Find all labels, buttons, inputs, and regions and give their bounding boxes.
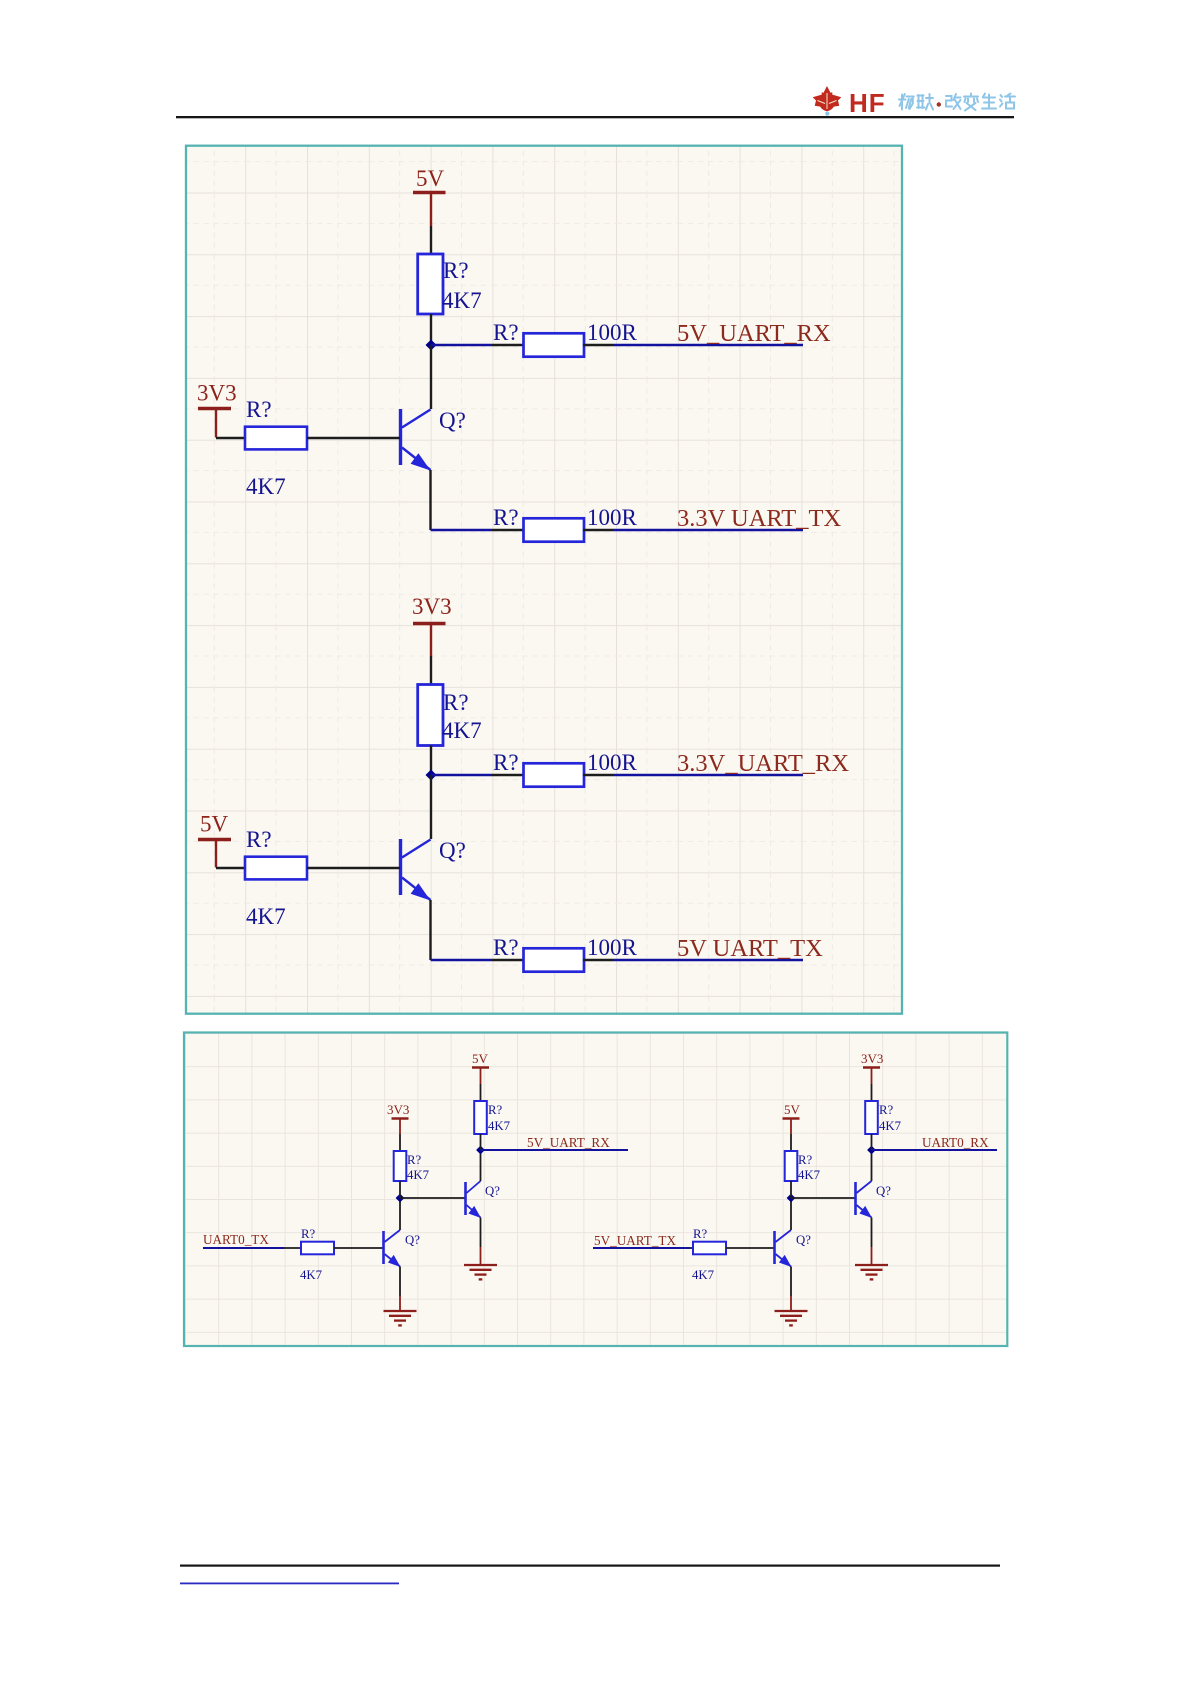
wire R5 to node B [430, 746, 432, 776]
svg-text:UART0_RX: UART0_RX [922, 1135, 989, 1150]
wire node B to R6 [431, 774, 492, 776]
char huo [1000, 94, 1015, 109]
wire 3V3 to R3 [216, 437, 245, 439]
transistor Q6 (NPN) [856, 1181, 873, 1218]
wire Q5 collector to node E [790, 1198, 792, 1230]
transistor Q2 (NPN) [401, 839, 431, 901]
power port 3V3 bar [392, 1119, 409, 1135]
resistor R12 body [693, 1242, 726, 1255]
header rule [176, 116, 1014, 118]
wire 5V to R1 [430, 226, 432, 254]
ground symbol Q4 emitter [464, 1265, 497, 1279]
svg-text:R?: R? [301, 1227, 316, 1241]
svg-text:5V UART_TX: 5V UART_TX [677, 935, 823, 962]
wire node E to Q6 base [791, 1197, 855, 1199]
svg-text:R?: R? [488, 1103, 503, 1117]
wire 3V3 to R5 [430, 656, 432, 685]
svg-text:R?: R? [246, 827, 272, 852]
svg-text:3V3: 3V3 [861, 1051, 883, 1066]
wire emitter to R4 [431, 529, 493, 531]
resistor R2 body [524, 333, 585, 356]
logo leaf [813, 86, 842, 116]
svg-text:Q?: Q? [485, 1184, 500, 1198]
wire R11 to node D [480, 1134, 482, 1150]
wire Q2 emitter down [429, 900, 431, 960]
ground symbol Q3 emitter [384, 1311, 417, 1325]
svg-text:100R: 100R [587, 505, 638, 530]
svg-text:4K7: 4K7 [246, 904, 286, 929]
ground symbol Q6 emitter [855, 1265, 888, 1279]
wire R1 to node A [430, 314, 432, 345]
node B junction dot [426, 770, 437, 781]
wire 5V to R11 [480, 1084, 482, 1101]
char gai [946, 94, 961, 109]
power port 3V3 bar [863, 1068, 880, 1085]
svg-text:R?: R? [493, 935, 519, 960]
wire to R9 [284, 1247, 301, 1249]
char bian [964, 94, 978, 111]
resistor R13 body [785, 1151, 798, 1181]
svg-text:4K7: 4K7 [488, 1119, 511, 1133]
wire node B to Q2 collector [430, 775, 432, 839]
wire node D to net 5V_UART_RX [481, 1149, 629, 1151]
svg-text:R?: R? [493, 505, 519, 530]
power port 3V3 bar [413, 624, 446, 657]
wire R13 to node E [790, 1181, 792, 1198]
power port 5V bar [472, 1068, 489, 1085]
ground symbol Q5 emitter [775, 1311, 808, 1325]
resistor R1 body [418, 254, 443, 314]
resistor R7 body [245, 857, 307, 880]
wire 3V3 to R14 [871, 1084, 873, 1101]
power port 3V3 bar [198, 409, 231, 438]
footer link underline [180, 1583, 399, 1585]
resistor R4 body [524, 518, 585, 541]
svg-text:5V: 5V [416, 166, 445, 191]
wire Q6 emitter to ground [871, 1218, 873, 1266]
resistor R8 body [524, 948, 585, 971]
wire Q1 emitter down [429, 470, 431, 530]
char sheng [982, 94, 996, 109]
wire R12 to Q5 base [726, 1247, 774, 1249]
wire node A to Q1 collector [430, 345, 432, 409]
svg-text:3V3: 3V3 [197, 381, 237, 406]
svg-text:4K7: 4K7 [442, 288, 482, 313]
wire Q4 emitter to ground [480, 1218, 482, 1266]
node A junction dot [426, 340, 437, 351]
wire R6 to net 3.3V_UART_RX [583, 774, 613, 776]
svg-text:3.3V UART_TX: 3.3V UART_TX [677, 505, 841, 532]
wire R7 to Q2 base [307, 867, 400, 869]
char lian [917, 94, 933, 110]
svg-text:R?: R? [493, 750, 519, 775]
svg-text:4K7: 4K7 [407, 1168, 430, 1182]
power port 5V bar [783, 1119, 800, 1135]
svg-text:3V3: 3V3 [387, 1102, 409, 1117]
svg-text:R?: R? [443, 690, 469, 715]
svg-text:5V: 5V [784, 1102, 801, 1117]
wire R4 to net 3.3V UART_TX [583, 529, 613, 531]
schematic panel 1 background [186, 146, 902, 1014]
svg-text:100R: 100R [587, 750, 638, 775]
svg-text:4K7: 4K7 [798, 1168, 821, 1182]
red middle dot [937, 102, 941, 106]
svg-text:4K7: 4K7 [692, 1268, 715, 1282]
wire net stub UART0_TX [203, 1247, 284, 1249]
wire 5V to R13 [790, 1134, 792, 1151]
svg-text:R?: R? [246, 397, 272, 422]
wire Q6 collector to node F [871, 1150, 873, 1181]
svg-text:100R: 100R [587, 935, 638, 960]
wire node C to Q4 base [400, 1197, 465, 1199]
resistor R6 body [524, 763, 585, 786]
svg-text:3.3V_UART_RX: 3.3V_UART_RX [677, 750, 849, 777]
header slogan strokes [899, 94, 1015, 111]
power port 5V bar [198, 840, 231, 868]
svg-text:R?: R? [407, 1153, 422, 1167]
wire R3 to Q1 base [307, 437, 400, 439]
wire R8 to net 5V UART_TX [583, 959, 613, 961]
svg-text:4K7: 4K7 [879, 1119, 902, 1133]
wire R10 to node C [399, 1181, 401, 1198]
resistor R3 body [245, 427, 307, 450]
wire node A to R2 [431, 344, 492, 346]
transistor Q3 (NPN) [384, 1230, 401, 1267]
svg-text:100R: 100R [587, 320, 638, 345]
svg-text:HF: HF [849, 88, 886, 118]
wire Q4 collector to node D [480, 1150, 482, 1181]
svg-text:R?: R? [443, 258, 469, 283]
footer rule [180, 1565, 1000, 1567]
svg-text:R?: R? [798, 1153, 813, 1167]
svg-text:R?: R? [493, 320, 519, 345]
wire to R12 [690, 1247, 693, 1249]
svg-text:5V_UART_TX: 5V_UART_TX [594, 1233, 676, 1248]
svg-text:UART0_TX: UART0_TX [203, 1232, 269, 1247]
transistor Q1 (NPN) [401, 409, 431, 471]
wire node F to net UART0_RX [872, 1149, 998, 1151]
svg-text:5V: 5V [200, 812, 229, 837]
wire 5V to R7 [216, 867, 245, 869]
svg-text:5V_UART_RX: 5V_UART_RX [677, 320, 831, 347]
svg-text:Q?: Q? [439, 838, 466, 863]
char wu [899, 94, 914, 110]
resistor R5 body [418, 685, 443, 746]
power port 5V bar [413, 193, 446, 227]
wire 3V3 to R10 [399, 1134, 401, 1151]
wire Q3 collector to node C [399, 1198, 401, 1230]
wire R14 to node F [871, 1134, 873, 1150]
transistor Q4 (NPN) [466, 1181, 482, 1218]
svg-text:Q?: Q? [876, 1184, 891, 1198]
resistor R14 body [865, 1101, 878, 1134]
svg-text:Q?: Q? [405, 1233, 420, 1247]
wire Q5 emitter to ground [790, 1267, 792, 1312]
wire R2 to net 5V_UART_RX [583, 344, 613, 346]
svg-text:3V3: 3V3 [412, 594, 452, 619]
svg-text:5V: 5V [472, 1051, 489, 1066]
resistor R11 body [474, 1101, 487, 1134]
svg-text:Q?: Q? [796, 1233, 811, 1247]
svg-text:4K7: 4K7 [246, 474, 286, 499]
node E junction dot [787, 1194, 796, 1203]
wire R9 to Q3 base [334, 1247, 383, 1249]
svg-text:4K7: 4K7 [442, 718, 482, 743]
schematic panel 2 background [184, 1033, 1007, 1347]
node C junction dot [396, 1194, 405, 1203]
transistor Q5 (NPN) [775, 1230, 792, 1267]
node D junction dot [476, 1146, 485, 1155]
svg-text:R?: R? [693, 1227, 708, 1241]
resistor R10 body [394, 1151, 407, 1181]
wire emitter to R8 [431, 959, 493, 961]
node F junction dot [867, 1146, 876, 1155]
svg-text:4K7: 4K7 [300, 1268, 323, 1282]
svg-text:R?: R? [879, 1103, 894, 1117]
resistor R9 body [301, 1242, 334, 1255]
svg-text:5V_UART_RX: 5V_UART_RX [527, 1135, 610, 1150]
svg-text:Q?: Q? [439, 408, 466, 433]
wire Q3 emitter to ground [399, 1267, 401, 1312]
wire net stub 5V_UART_TX [593, 1247, 690, 1249]
